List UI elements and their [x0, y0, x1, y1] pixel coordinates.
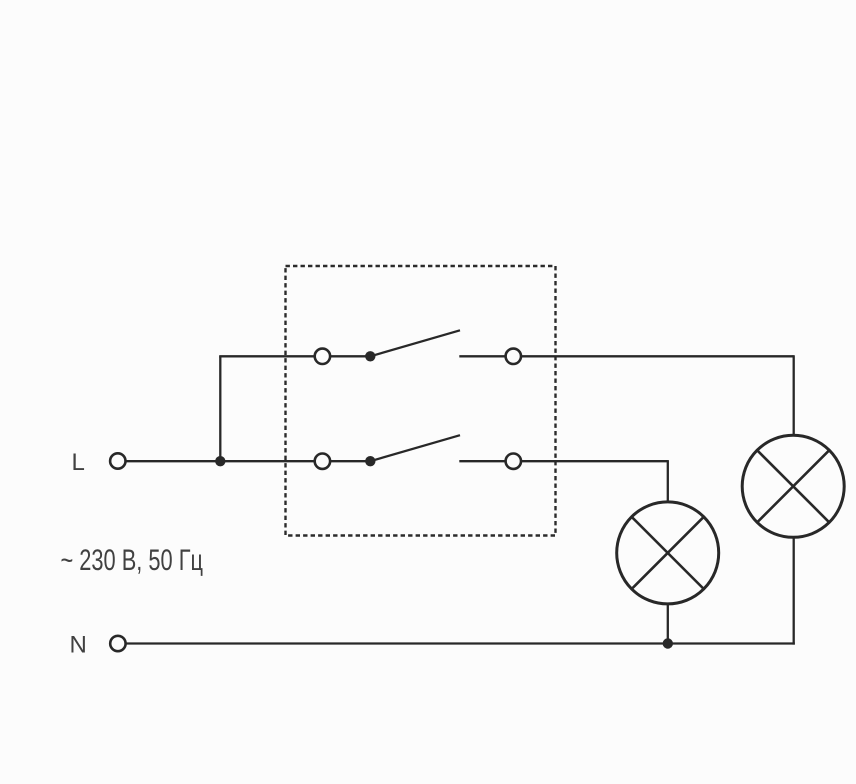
node junction L branch [215, 456, 225, 466]
wire S1.2 output to lamp EL1 [522, 460, 668, 462]
switch S1.2 right terminal [506, 454, 521, 469]
wire [331, 460, 368, 462]
switch S1.2 pivot dot [365, 456, 375, 466]
switch S1.1 right terminal [506, 349, 521, 364]
wire [331, 355, 368, 357]
switch S1.2 lever [370, 435, 460, 461]
svg-text:~ 230 В, 50 Гц: ~ 230 В, 50 Гц [61, 544, 204, 577]
L terminal [110, 453, 125, 468]
node junction N [663, 638, 673, 648]
lamp EL1 [617, 502, 719, 604]
switch S1.1 pivot dot [365, 351, 375, 361]
wire branch to switch S1.1 input [219, 355, 314, 357]
wire [459, 460, 505, 462]
svg-text:N: N [70, 632, 87, 659]
wire N bus [126, 642, 794, 644]
svg-text:L: L [72, 449, 85, 476]
wire L to switch S1.2 input [126, 460, 314, 462]
wire lamp EL2 to N [793, 537, 795, 644]
wire down to lamp EL1 [667, 460, 669, 503]
switch S1.1 left terminal [315, 349, 330, 364]
wire [459, 355, 505, 357]
wire branch vertical [219, 356, 221, 461]
N terminal [110, 636, 125, 651]
wire down to lamp EL2 [793, 355, 795, 436]
lamp EL2 [742, 435, 844, 537]
switch enclosure dashed box [286, 266, 556, 536]
wire lamp EL1 to N [667, 604, 669, 644]
switch S1.2 left terminal [315, 454, 330, 469]
wire S1.1 output to lamp EL2 [522, 355, 794, 357]
switch S1.1 lever [370, 330, 460, 356]
